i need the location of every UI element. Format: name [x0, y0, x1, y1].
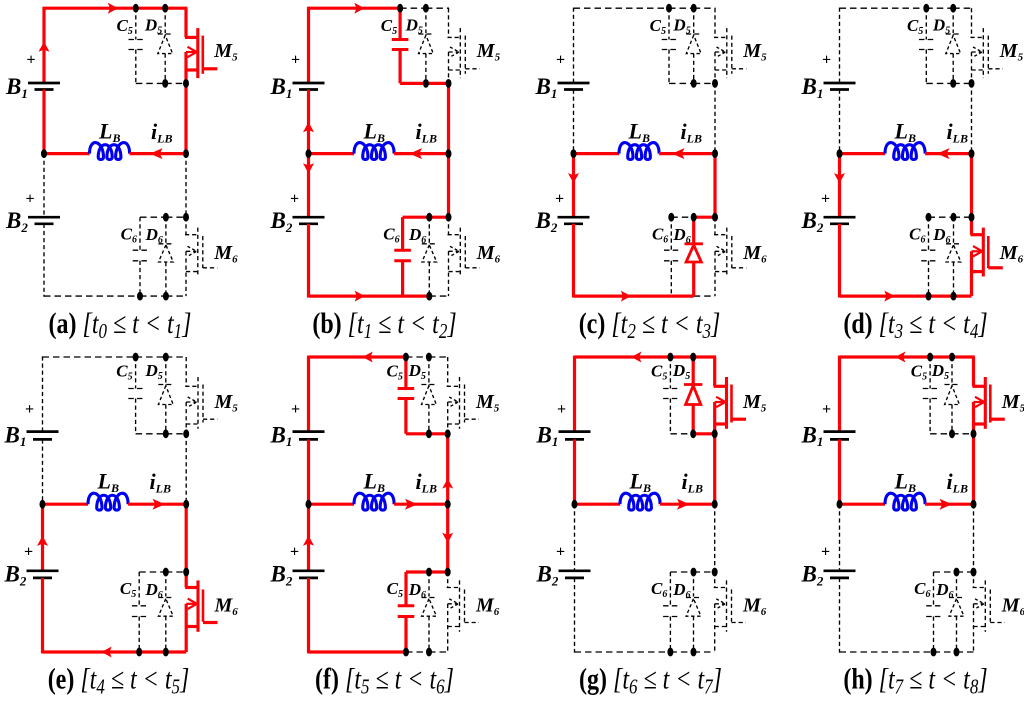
wire top rail (left section) — [840, 355, 931, 358]
current arrow bottom rail — [355, 291, 365, 302]
wire B2 - to bottom rail corner — [574, 578, 576, 653]
wire middle-left node to B2 + — [839, 504, 841, 571]
node middle-left junction — [306, 500, 312, 509]
wire D5 bottom to M5 source node — [165, 82, 186, 84]
node C5 top — [923, 4, 929, 13]
battery B2 — [558, 216, 590, 219]
wire middle-left node to B2 + — [43, 154, 45, 218]
node C5 top — [133, 4, 139, 13]
caption (g) — [579, 662, 722, 699]
inductor LB — [90, 143, 130, 160]
wire top rail (D5 to M5 drain corner) — [694, 7, 716, 9]
node middle-left junction — [571, 149, 577, 158]
diode D5 — [952, 8, 954, 33]
wire C5 bottom to D5 bottom — [136, 82, 165, 84]
current arrow iLB (right) — [405, 499, 418, 510]
inductor LB — [885, 493, 925, 510]
wire right rail (M5 source to middle node) — [446, 434, 449, 504]
wire middle-left node to B2 + — [574, 504, 576, 571]
node D6 bottom — [951, 292, 957, 301]
transistor M5 — [447, 357, 449, 386]
wire C5 bottom to D5 bottom — [400, 82, 426, 85]
svg-text:+: + — [25, 191, 34, 208]
svg-text:+: + — [24, 544, 33, 561]
wire left rail upper (top rail corner to B1 +) — [838, 356, 841, 432]
wire bottom rail (C6 to D6) — [406, 651, 429, 653]
wire B2 - to bottom rail corner — [41, 578, 44, 654]
wire top rail (C5 to D5) — [669, 7, 694, 9]
inductor LB — [354, 493, 394, 510]
wire left rail upper (top rail corner to B1 +) — [839, 8, 841, 83]
node right rail at C6/D6 level — [446, 213, 452, 222]
node C6 top — [668, 213, 674, 222]
wire D6 top to right rail node — [694, 571, 715, 573]
node right rail at C6/D6 level — [183, 213, 189, 222]
wire bottom rail (C6 to D6) — [139, 650, 166, 653]
wire right rail (middle node to C6/D6 node) — [973, 504, 975, 572]
wire B1 - to middle-left node — [307, 90, 310, 154]
wire D6 top to right rail node — [694, 216, 715, 219]
wire bottom rail (D6 to M6 source) — [166, 650, 186, 653]
node D6 bottom — [163, 648, 169, 657]
diode D5 — [428, 357, 430, 384]
wire inductor to middle-right node — [394, 152, 448, 155]
wire top rail (C5 to D5) — [136, 356, 166, 358]
wire top rail (D5 to M5 drain corner) — [429, 356, 448, 358]
wire C6 top to D6 top — [403, 216, 430, 219]
wire right rail (M5 source to middle node) — [972, 434, 975, 504]
diode D5 — [693, 8, 695, 33]
wire B2 - to bottom rail corner — [572, 224, 575, 298]
wire bottom rail (D6 to M6 source) — [694, 651, 715, 653]
wire C5 bottom to D5 bottom — [406, 432, 429, 435]
wire B1 - to middle-left node — [42, 439, 44, 504]
node D6 bottom — [426, 648, 432, 657]
wire right rail (middle node to C6/D6 node) — [447, 154, 450, 218]
capacitor C6 — [139, 217, 141, 250]
diode D5 — [692, 357, 695, 385]
node D5 bottom — [162, 79, 168, 88]
wire middle-left node to B2 + — [838, 154, 841, 218]
node middle-left junction — [41, 149, 47, 158]
wire middle-left node to inductor — [575, 503, 621, 506]
wire bottom rail (left section) — [840, 295, 929, 298]
transistor M5 — [713, 357, 716, 386]
transistor M6 — [447, 572, 449, 588]
wire C5 bottom to D5 bottom — [136, 433, 166, 435]
battery B2 — [28, 216, 60, 219]
svg-text:(e) [t4 ≤ t < t5]: (e) [t4 ≤ t < t5] — [48, 662, 190, 697]
battery B1 — [28, 82, 60, 85]
node D6 top — [163, 213, 169, 222]
inductor LB — [619, 143, 659, 160]
capacitor C5 — [135, 8, 137, 39]
current arrow iLB (right) — [153, 499, 166, 510]
node C6 bottom — [926, 292, 932, 301]
wire B2 - to bottom rail corner — [839, 578, 841, 653]
caption (a) — [49, 307, 192, 344]
wire B1 - to middle-left node — [573, 439, 576, 504]
node M5 source junction — [712, 429, 718, 438]
current arrow top rail — [363, 352, 373, 363]
wire C6 top to D6 top — [670, 571, 693, 573]
transistor M6 — [714, 572, 716, 588]
svg-text:+: + — [556, 544, 565, 561]
wire C5 bottom to D5 bottom — [926, 82, 953, 84]
node D5 top — [949, 353, 955, 362]
node C5 top — [667, 353, 673, 362]
wire bottom rail (D6 to M6 source) — [429, 651, 448, 653]
wire bottom rail (C6 to D6) — [670, 651, 693, 653]
wire left rail upper (top rail corner to B1 +) — [573, 356, 576, 432]
node right rail at C6/D6 level — [712, 568, 718, 577]
wire D5 bottom to M5 source node — [426, 82, 449, 85]
wire bottom rail (left section) — [309, 650, 407, 653]
transistor M6 — [970, 217, 973, 235]
wire top rail (left section) — [309, 7, 401, 10]
wire C6 top to D6 top — [671, 216, 693, 218]
diode D6 — [428, 572, 430, 597]
wire C5 bottom to D5 bottom — [930, 433, 952, 435]
wire top rail (left section) — [840, 7, 927, 9]
node right rail at C6/D6 level — [445, 568, 451, 577]
wire bottom rail (D6 to M6 source) — [166, 295, 186, 297]
node middle-right junction — [712, 149, 718, 158]
node D5 bottom — [423, 79, 429, 88]
wire inductor to middle-right node — [660, 503, 715, 506]
wire middle-left node to inductor — [840, 152, 886, 155]
capacitor C6 — [670, 217, 672, 250]
current arrow iLB (left) — [937, 148, 950, 159]
wire C6 top to D6 top — [139, 571, 166, 573]
node middle-right junction — [969, 149, 975, 158]
wire bottom rail (C6 to D6) — [929, 295, 954, 298]
svg-text:+: + — [556, 52, 565, 69]
wire right rail (middle node to C6/D6 node) — [970, 154, 973, 218]
caption (e) — [48, 662, 190, 699]
battery B1 — [293, 430, 325, 433]
svg-text:+: + — [290, 544, 299, 561]
wire bottom rail (C6 to D6) — [403, 295, 430, 298]
wire left rail upper (top rail corner to B1 +) — [307, 356, 310, 432]
wire D5 bottom to M5 source node — [953, 82, 971, 84]
inductor LB — [354, 143, 394, 160]
node M5 source junction — [971, 429, 977, 438]
battery B1 — [293, 82, 325, 85]
wire D6 top to right rail node — [429, 570, 448, 573]
battery B2 — [559, 569, 591, 572]
inductor LB — [620, 493, 660, 510]
wire bottom rail (D6 to M6 source) — [429, 295, 448, 297]
wire C6 top to D6 top — [929, 216, 954, 218]
diode D6 — [956, 572, 958, 597]
transistor M6 — [714, 217, 716, 235]
wire D5 bottom to M5 source node — [166, 433, 186, 435]
wire left rail upper (top rail corner to B1 +) — [307, 7, 310, 83]
wire left rail upper (top rail corner to B1 +) — [42, 356, 44, 431]
wire D5 bottom to M5 source node — [694, 82, 715, 84]
node middle-left junction — [837, 149, 843, 158]
wire left rail upper (top rail corner to B1 +) — [573, 8, 575, 83]
svg-text:+: + — [555, 191, 564, 208]
inductor LB — [88, 493, 128, 510]
wire top rail (D5 to M5 drain corner) — [426, 7, 449, 9]
wire B1 - to middle-left node — [42, 90, 45, 154]
capacitor C6 — [669, 572, 671, 606]
current arrow iLB (left) — [150, 148, 163, 159]
node C6 bottom — [667, 648, 673, 657]
wire middle-left node to B2 + — [307, 154, 310, 218]
node middle-right junction — [446, 149, 452, 158]
node middle-right junction — [445, 500, 451, 509]
diode D6 — [693, 572, 695, 597]
wire bottom rail (C6 to D6) — [934, 651, 957, 653]
wire right rail (M5 source to middle node) — [713, 434, 716, 504]
transistor M5 — [714, 8, 716, 37]
wire top rail (left section) — [309, 355, 406, 358]
transistor M6 — [448, 217, 450, 235]
capacitor C5 — [669, 357, 671, 389]
transistor M6 — [973, 572, 975, 588]
diode D6 — [165, 572, 167, 597]
node middle-right junction — [712, 500, 718, 509]
wire D5 bottom to M5 source node — [952, 433, 974, 435]
wire top rail (C5 to D5) — [406, 356, 429, 358]
current arrow toward B2 — [568, 173, 579, 183]
transistor M5 — [185, 357, 187, 386]
wire D6 top to right rail node — [957, 571, 974, 573]
wire top rail (left section) — [574, 7, 670, 9]
capacitor C5 — [929, 357, 931, 389]
wire right rail (M5 source to middle node) — [185, 434, 187, 504]
current arrow top rail — [895, 352, 905, 363]
wire bottom rail (left section) — [43, 650, 140, 653]
wire top rail (left section) — [43, 356, 136, 358]
capacitor C5 — [668, 8, 670, 39]
wire C5 bottom to D5 bottom — [669, 82, 694, 84]
wire B1 - to middle-left node — [838, 439, 841, 504]
node M5 source junction — [712, 79, 718, 88]
svg-text:+: + — [557, 401, 566, 418]
transistor M6 — [185, 217, 187, 235]
battery B2 — [824, 569, 856, 572]
current arrow from B2 up — [303, 536, 314, 546]
wire B2 - to bottom rail corner — [43, 224, 45, 297]
svg-text:+: + — [291, 401, 300, 418]
svg-text:+: + — [290, 191, 299, 208]
node D5 bottom — [163, 429, 169, 438]
wire middle-left node to inductor — [43, 503, 89, 506]
current arrow toward B2 — [303, 163, 314, 173]
node D5 bottom — [950, 79, 956, 88]
wire right rail (middle node to C6/D6 node) — [185, 154, 187, 218]
wire B1 - to middle-left node — [307, 439, 310, 504]
wire C6 top to D6 top — [934, 571, 957, 573]
node C5 top — [666, 4, 672, 13]
diode D6 — [165, 217, 167, 243]
wire middle-left node to B2 + — [41, 504, 44, 571]
diode D5 — [951, 357, 953, 384]
current arrow bottom rail — [102, 647, 112, 658]
wire right rail (middle node to C6/D6 node) — [446, 504, 449, 572]
wire bottom rail (D6 to M6 source) — [694, 295, 715, 297]
wire middle-left node to B2 + — [307, 504, 310, 571]
transistor M5 — [184, 8, 187, 37]
current arrow iLB (right) — [940, 499, 953, 510]
node middle-left junction — [40, 500, 46, 509]
wire B1 - to middle-left node — [573, 90, 575, 154]
wire top rail (C5 to D5) — [926, 7, 953, 9]
current arrow iLB (left) — [410, 148, 423, 159]
svg-text:+: + — [26, 52, 35, 69]
node D5 bottom — [691, 79, 697, 88]
node C5 top — [133, 353, 139, 362]
svg-text:(a) [t0 ≤ t < t1]: (a) [t0 ≤ t < t1] — [49, 307, 192, 344]
wire inductor to middle-right node — [925, 503, 973, 506]
diode D5 — [425, 8, 427, 33]
wire top rail (left section) — [575, 355, 671, 358]
current arrow toward B2 — [834, 173, 845, 183]
caption (f) — [315, 662, 454, 699]
current arrow iLB (left) — [672, 148, 685, 159]
wire bottom rail (left section) — [574, 295, 672, 298]
node right rail at C6/D6 level — [969, 213, 975, 222]
wire top rail (C5 to D5) — [136, 7, 165, 10]
wire right rail (middle node to C6/D6 node) — [185, 504, 188, 572]
wire D6 top to right rail node — [954, 216, 972, 218]
node M5 source junction — [445, 429, 451, 438]
node C6 bottom — [403, 648, 409, 657]
wire middle-left node to inductor — [840, 503, 886, 506]
wire left rail upper (top rail corner to B1 +) — [42, 7, 45, 83]
node D6 bottom — [426, 292, 432, 301]
battery B2 — [824, 216, 856, 219]
battery B1 — [559, 430, 591, 433]
caption (b) — [312, 307, 456, 344]
svg-text:(g) [t6 ≤ t < t7]: (g) [t6 ≤ t < t7] — [579, 662, 722, 697]
node middle-left junction — [306, 149, 312, 158]
svg-text:+: + — [25, 401, 34, 418]
current arrow left rail up — [39, 42, 50, 52]
wire bottom rail (C6 to D6) — [671, 295, 693, 298]
node D6 top — [163, 568, 169, 577]
node M5 source junction — [969, 79, 975, 88]
capacitor C5 — [399, 8, 402, 39]
diode D6 — [692, 217, 695, 244]
node C6 bottom — [931, 648, 937, 657]
capacitor C6 — [928, 217, 930, 250]
node D5 bottom — [690, 429, 696, 438]
wire inductor to middle-right node — [394, 503, 448, 506]
wire inductor to middle-right node — [128, 503, 186, 506]
wire D5 bottom to M5 source node — [693, 432, 715, 435]
node D6 top — [691, 568, 697, 577]
wire C6 top to D6 top — [140, 216, 166, 218]
node D6 bottom — [954, 648, 960, 657]
node D5 top — [950, 4, 956, 13]
node middle-left junction — [837, 500, 843, 509]
wire top rail (D5 to M5 drain corner) — [166, 356, 187, 358]
wire middle-left node to inductor — [574, 152, 620, 155]
node D5 bottom — [426, 429, 432, 438]
node middle-left junction — [572, 500, 578, 509]
svg-text:+: + — [291, 52, 300, 69]
wire B2 - to bottom rail corner — [838, 224, 841, 298]
svg-text:+: + — [821, 544, 830, 561]
caption (h) — [843, 662, 987, 699]
node D6 top — [426, 213, 432, 222]
node D5 top — [423, 4, 429, 13]
node middle-right junction — [971, 500, 977, 509]
wire right rail (M5 source to middle node) — [971, 83, 973, 153]
capacitor C6 — [404, 572, 407, 606]
caption (c) — [579, 307, 721, 344]
wire top rail (C5 to D5) — [400, 7, 426, 9]
wire B2 - to bottom rail corner — [307, 578, 310, 654]
svg-text:(b) [t1 ≤ t < t2]: (b) [t1 ≤ t < t2] — [312, 307, 456, 344]
wire bottom rail (left section) — [840, 651, 934, 653]
node right rail at C6/D6 level — [183, 568, 189, 577]
wire bottom rail (C6 to D6) — [140, 295, 166, 297]
wire top rail (D5 to M5 drain corner) — [952, 355, 975, 358]
inductor LB — [885, 143, 925, 160]
battery B2 — [27, 569, 59, 572]
svg-text:(h) [t7 ≤ t < t8]: (h) [t7 ≤ t < t8] — [843, 662, 987, 697]
wire C6 top to D6 top — [406, 570, 429, 573]
node middle-right junction — [183, 149, 189, 158]
current arrow right rail up — [442, 478, 453, 488]
node D5 top — [690, 353, 696, 362]
node D5 bottom — [949, 429, 955, 438]
diode D5 — [165, 357, 167, 384]
node C6 top — [926, 213, 932, 222]
node D6 top — [951, 213, 957, 222]
node D6 bottom — [691, 648, 697, 657]
current arrow bottom rail — [621, 291, 631, 302]
capacitor C6 — [933, 572, 935, 606]
battery B1 — [824, 82, 856, 85]
wire middle-left node to inductor — [309, 503, 355, 506]
wire D6 top to right rail node — [166, 571, 186, 573]
capacitor C5 — [135, 357, 137, 389]
wire top rail (C5 to D5) — [670, 355, 693, 358]
battery B2 — [293, 569, 325, 572]
wire bottom rail (left section) — [309, 295, 403, 298]
node D6 top — [954, 568, 960, 577]
wire right rail (M5 source to middle node) — [447, 83, 450, 153]
node D6 top — [426, 568, 432, 577]
node C6 bottom — [136, 648, 142, 657]
wire top rail (D5 to M5 drain corner) — [693, 355, 716, 358]
node D5 top — [162, 4, 168, 13]
node D6 top — [691, 213, 697, 222]
wire B2 - to bottom rail corner — [307, 224, 310, 298]
wire middle-left node to inductor — [309, 152, 355, 155]
transistor M5 — [972, 357, 975, 386]
wire top rail (D5 to M5 drain corner) — [165, 7, 187, 10]
node M5 source junction — [446, 79, 452, 88]
node D5 top — [426, 353, 432, 362]
wire top rail (C5 to D5) — [930, 355, 952, 358]
node right rail at C6/D6 level — [712, 213, 718, 222]
current arrow toward B1 — [303, 122, 314, 132]
caption (d) — [843, 307, 987, 344]
node C5 top — [397, 4, 403, 13]
current arrow top rail — [354, 3, 364, 14]
wire bottom rail (D6 to M6 source) — [957, 651, 974, 653]
node middle-right junction — [183, 500, 189, 509]
wire D6 top to right rail node — [429, 216, 448, 219]
